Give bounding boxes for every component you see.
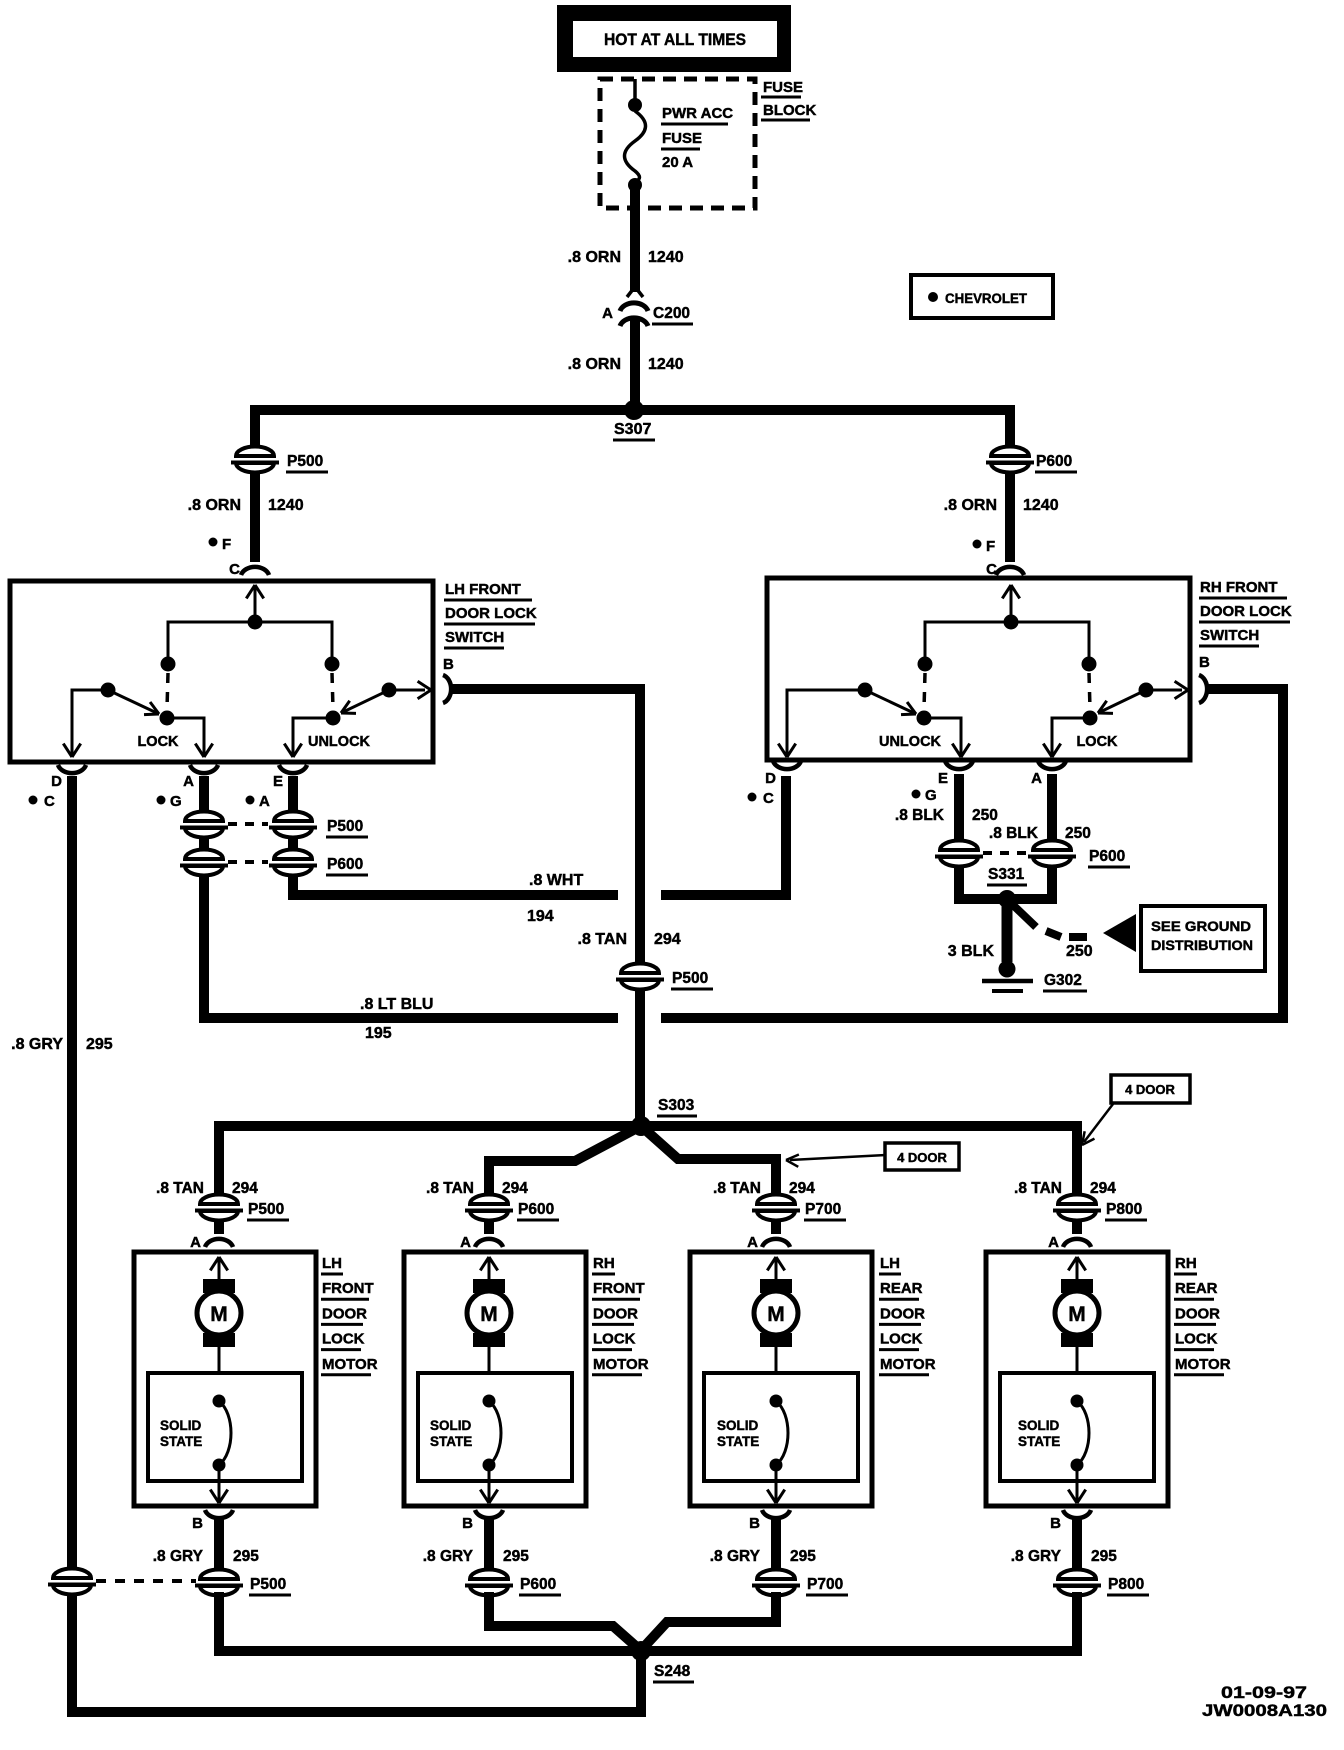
svg-text:1240: 1240 bbox=[648, 356, 684, 373]
wire S303 to column 3 bbox=[641, 1126, 776, 1198]
callout arrow 4 DOOR (column 4) bbox=[1084, 1104, 1113, 1142]
svg-text:S248: S248 bbox=[654, 1663, 691, 1680]
pin E arc RH bbox=[945, 761, 973, 769]
svg-text:M: M bbox=[1068, 1303, 1086, 1326]
RH switch contacts and wiper bbox=[1010, 585, 1013, 622]
svg-text:295: 295 bbox=[233, 1548, 259, 1565]
connector P500 (column 1 return) bbox=[195, 1569, 243, 1596]
motor M (column 3) bbox=[775, 1257, 778, 1279]
wire grommet to pin A (column 4) bbox=[1072, 1219, 1082, 1234]
wire 3 BLK 250 to ground bbox=[1002, 903, 1013, 962]
svg-text:SOLID: SOLID bbox=[160, 1418, 202, 1433]
connector P500 (LH switch outputs) bbox=[180, 811, 228, 838]
svg-text:SWITCH: SWITCH bbox=[445, 629, 504, 646]
fuse PWR ACC FUSE 20 A element bbox=[625, 111, 646, 182]
label dot A (LH pin E) bbox=[246, 796, 255, 805]
svg-text:.8 TAN: .8 TAN bbox=[156, 1180, 204, 1197]
svg-text:295: 295 bbox=[1091, 1548, 1117, 1565]
svg-text:D: D bbox=[765, 770, 776, 787]
ground G302 bbox=[999, 961, 1016, 978]
solid state box (column 2) bbox=[418, 1373, 572, 1481]
svg-text:RH FRONT: RH FRONT bbox=[1200, 579, 1278, 596]
svg-text:C200: C200 bbox=[653, 305, 690, 322]
callout box 4 DOOR (column 3) bbox=[885, 1143, 959, 1170]
svg-text:.8 TAN: .8 TAN bbox=[578, 931, 627, 948]
svg-text:1240: 1240 bbox=[648, 249, 684, 266]
wire fuse top lead bbox=[633, 79, 637, 101]
label dot F (RH) bbox=[973, 540, 982, 549]
svg-text:LOCK: LOCK bbox=[593, 1331, 636, 1348]
connector P500 (column 1 feed) bbox=[195, 1194, 243, 1221]
svg-text:STATE: STATE bbox=[160, 1434, 202, 1449]
svg-text:295: 295 bbox=[790, 1548, 816, 1565]
dashed tie left grommet to P500 bbox=[96, 1579, 196, 1583]
svg-text:E: E bbox=[938, 770, 948, 787]
wire pin B to grommet (column 2) bbox=[484, 1519, 494, 1592]
svg-text:SWITCH: SWITCH bbox=[1200, 627, 1259, 644]
motor M (column 1) bbox=[218, 1257, 221, 1279]
dashed tie P500 pair bbox=[228, 822, 268, 826]
svg-text:A: A bbox=[1031, 770, 1042, 787]
svg-text:G: G bbox=[170, 793, 182, 810]
svg-text:A: A bbox=[183, 773, 194, 790]
svg-text:B: B bbox=[192, 1515, 203, 1532]
wire fuse to C200 bbox=[630, 189, 640, 292]
svg-text:.8 TAN: .8 TAN bbox=[426, 1180, 474, 1197]
svg-text:C: C bbox=[229, 561, 240, 578]
connector P800 (column 4 feed) bbox=[1053, 1194, 1101, 1221]
connector P500 (LH feed) bbox=[231, 446, 279, 473]
wire pin B to grommet (column 3) bbox=[771, 1519, 781, 1592]
svg-text:P600: P600 bbox=[520, 1576, 556, 1593]
wire LH pin B TAN down to S303 bbox=[452, 689, 640, 1122]
node fuse top bbox=[628, 98, 642, 112]
solid state box (column 3) bbox=[704, 1373, 858, 1481]
svg-text:.8 ORN: .8 ORN bbox=[568, 356, 621, 373]
svg-text:1240: 1240 bbox=[1023, 497, 1059, 514]
motor M (column 2) bbox=[488, 1257, 491, 1279]
dashed link to ground distribution bbox=[1013, 905, 1036, 927]
svg-text:FRONT: FRONT bbox=[593, 1280, 645, 1297]
svg-text:MOTOR: MOTOR bbox=[322, 1356, 378, 1373]
svg-text:.8 GRY: .8 GRY bbox=[153, 1548, 204, 1565]
svg-text:F: F bbox=[986, 538, 995, 555]
wire grommet to pin A (column 3) bbox=[771, 1219, 781, 1234]
connector P500 (TAN trunk) bbox=[616, 963, 664, 990]
splice S307 bbox=[624, 400, 644, 420]
connector P700 (column 3 feed) bbox=[752, 1194, 800, 1221]
solid state switch contacts (column 4) bbox=[1071, 1395, 1084, 1408]
motor M (column 4) bbox=[1076, 1257, 1079, 1279]
svg-text:P700: P700 bbox=[805, 1201, 841, 1218]
label dot G (RH pin E) bbox=[912, 790, 921, 799]
svg-text:G: G bbox=[925, 787, 937, 804]
svg-text:.8 TAN: .8 TAN bbox=[1014, 1180, 1062, 1197]
svg-text:.8 LT BLU: .8 LT BLU bbox=[360, 996, 433, 1013]
connector P600 (LH switch outputs) bbox=[180, 849, 228, 876]
wire RH pin E to S331 bbox=[959, 774, 1003, 899]
svg-text:MOTOR: MOTOR bbox=[593, 1356, 649, 1373]
wire column 2 to S248 bbox=[489, 1592, 639, 1649]
svg-text:S331: S331 bbox=[988, 866, 1025, 883]
wire S303 to column 1 bbox=[219, 1126, 641, 1198]
pin B arc LH bbox=[443, 675, 451, 703]
label dot C (RH pin D) bbox=[748, 793, 757, 802]
svg-text:FUSE: FUSE bbox=[763, 79, 803, 96]
svg-text:DOOR: DOOR bbox=[322, 1305, 367, 1322]
svg-text:01-09-97: 01-09-97 bbox=[1221, 1683, 1307, 1702]
svg-text:P800: P800 bbox=[1106, 1201, 1142, 1218]
connector P600 (RH feed) bbox=[986, 446, 1034, 473]
svg-text:C: C bbox=[986, 561, 997, 578]
solid state switch contacts (column 2) bbox=[483, 1395, 496, 1408]
svg-text:.8 WHT: .8 WHT bbox=[529, 872, 583, 889]
splice S331 bbox=[998, 890, 1016, 908]
pin C arc RH switch bbox=[996, 567, 1024, 575]
connector P800 (column 4 return) bbox=[1053, 1569, 1101, 1596]
svg-text:SOLID: SOLID bbox=[1018, 1418, 1060, 1433]
pin B arc (column 3) bbox=[762, 1510, 790, 1518]
wire pin B to grommet (column 4) bbox=[1072, 1519, 1082, 1592]
svg-text:250: 250 bbox=[1065, 825, 1091, 842]
pin D arc LH bbox=[58, 765, 86, 773]
LH front door lock switch box bbox=[10, 581, 433, 762]
note box SEE GROUND DISTRIBUTION bbox=[1141, 906, 1265, 971]
svg-text:SEE GROUND: SEE GROUND bbox=[1151, 918, 1251, 934]
connector P700 (column 3 return) bbox=[752, 1569, 800, 1596]
svg-text:STATE: STATE bbox=[717, 1434, 759, 1449]
wire grommet to pin A (column 2) bbox=[484, 1219, 494, 1234]
wire grommet to pin A (column 1) bbox=[214, 1219, 224, 1234]
svg-text:REAR: REAR bbox=[880, 1280, 923, 1297]
svg-text:DOOR: DOOR bbox=[593, 1305, 638, 1322]
svg-text:4 DOOR: 4 DOOR bbox=[1125, 1082, 1175, 1097]
svg-text:BLOCK: BLOCK bbox=[763, 102, 816, 119]
svg-text:P700: P700 bbox=[807, 1576, 843, 1593]
svg-text:HOT AT ALL TIMES: HOT AT ALL TIMES bbox=[604, 30, 746, 49]
svg-text:.8 ORN: .8 ORN bbox=[188, 497, 241, 514]
grommet on left GRY wire bbox=[48, 1568, 96, 1595]
svg-text:STATE: STATE bbox=[430, 1434, 472, 1449]
svg-text:P500: P500 bbox=[672, 970, 708, 987]
svg-text:SOLID: SOLID bbox=[430, 1418, 472, 1433]
svg-text:RH: RH bbox=[593, 1255, 615, 1272]
svg-text:D: D bbox=[51, 773, 62, 790]
svg-text:B: B bbox=[1050, 1515, 1061, 1532]
connector C200 bbox=[627, 288, 634, 297]
LH switch contacts and wiper bbox=[254, 585, 257, 622]
svg-text:C: C bbox=[44, 793, 55, 810]
pin D arc RH bbox=[773, 761, 801, 769]
pin A arc RH bbox=[1038, 761, 1066, 769]
svg-text:LOCK: LOCK bbox=[880, 1331, 923, 1348]
svg-text:A: A bbox=[259, 793, 270, 810]
svg-text:P600: P600 bbox=[1036, 453, 1072, 470]
svg-text:P600: P600 bbox=[1089, 848, 1125, 865]
pin B arc (column 4) bbox=[1063, 1510, 1091, 1518]
svg-text:250: 250 bbox=[1066, 943, 1093, 960]
svg-text:P500: P500 bbox=[327, 818, 363, 835]
svg-text:1240: 1240 bbox=[268, 497, 304, 514]
svg-text:M: M bbox=[767, 1303, 785, 1326]
wire LT BLU right part to RH pin B bbox=[661, 689, 1283, 1018]
solid state box (column 4) bbox=[1000, 1373, 1154, 1481]
svg-text:REAR: REAR bbox=[1175, 1280, 1218, 1297]
svg-text:A: A bbox=[1048, 1234, 1059, 1251]
svg-text:B: B bbox=[749, 1515, 760, 1532]
svg-text:.8 BLK: .8 BLK bbox=[989, 825, 1039, 842]
wire S303 to column 2 bbox=[489, 1126, 641, 1198]
svg-text:LOCK: LOCK bbox=[1076, 734, 1118, 750]
connector P600 (column 2 return) bbox=[465, 1569, 513, 1596]
svg-text:P600: P600 bbox=[327, 856, 363, 873]
connector P600 (column 2 feed) bbox=[465, 1194, 513, 1221]
svg-text:LOCK: LOCK bbox=[322, 1331, 365, 1348]
wire column 1 and 4 to S248 bus bbox=[219, 1592, 1077, 1651]
splice S248 bbox=[631, 1641, 651, 1661]
wire C200 to S307 bbox=[630, 319, 640, 406]
svg-text:195: 195 bbox=[365, 1025, 392, 1042]
svg-text:.8 GRY: .8 GRY bbox=[1011, 1548, 1062, 1565]
label dot G (LH pin A) bbox=[157, 796, 166, 805]
svg-text:295: 295 bbox=[503, 1548, 529, 1565]
svg-text:SOLID: SOLID bbox=[717, 1418, 759, 1433]
svg-text:.8 GRY: .8 GRY bbox=[423, 1548, 474, 1565]
svg-text:LH: LH bbox=[322, 1255, 342, 1272]
svg-text:LOCK: LOCK bbox=[1175, 1331, 1218, 1348]
svg-text:DISTRIBUTION: DISTRIBUTION bbox=[1151, 937, 1253, 953]
svg-text:C: C bbox=[763, 790, 774, 807]
wire WHT right part to RH pin D bbox=[661, 776, 786, 895]
svg-text:MOTOR: MOTOR bbox=[1175, 1356, 1231, 1373]
wire .8 GRY 295 left side down to S248 bottom run bbox=[72, 776, 641, 1712]
svg-text:E: E bbox=[273, 773, 283, 790]
wire column 3 to S248 bbox=[643, 1592, 776, 1648]
svg-text:DOOR LOCK: DOOR LOCK bbox=[1200, 603, 1292, 620]
fuse block dashed outline bbox=[600, 79, 755, 208]
door lock motor box (column 2) bbox=[404, 1252, 586, 1506]
svg-text:.8 TAN: .8 TAN bbox=[713, 1180, 761, 1197]
wire LH pin A to LT BLU run bbox=[204, 776, 618, 1018]
svg-text:P500: P500 bbox=[248, 1201, 284, 1218]
wire RH pin A to S331 bbox=[1011, 774, 1052, 899]
svg-text:UNLOCK: UNLOCK bbox=[308, 734, 371, 750]
svg-text:JW0008A130: JW0008A130 bbox=[1202, 1701, 1327, 1720]
power feed box HOT AT ALL TIMES bbox=[557, 5, 791, 72]
svg-text:B: B bbox=[443, 656, 454, 673]
svg-text:194: 194 bbox=[527, 908, 554, 925]
svg-text:MOTOR: MOTOR bbox=[880, 1356, 936, 1373]
svg-text:P500: P500 bbox=[287, 453, 323, 470]
svg-text:M: M bbox=[210, 1303, 228, 1326]
svg-text:B: B bbox=[1199, 654, 1210, 671]
solid state box (column 1) bbox=[148, 1373, 302, 1481]
svg-text:P800: P800 bbox=[1108, 1576, 1144, 1593]
node fuse bottom bbox=[628, 178, 642, 192]
RH front door lock switch box bbox=[767, 578, 1190, 760]
svg-text:M: M bbox=[480, 1303, 498, 1326]
svg-text:294: 294 bbox=[654, 931, 681, 948]
svg-text:S307: S307 bbox=[614, 421, 651, 438]
svg-text:S303: S303 bbox=[658, 1097, 695, 1114]
svg-text:LH: LH bbox=[880, 1255, 900, 1272]
dashed tie RH grommets bbox=[983, 851, 1027, 855]
svg-text:A: A bbox=[190, 1234, 201, 1251]
svg-text:DOOR: DOOR bbox=[880, 1305, 925, 1322]
pin A arc LH bbox=[190, 765, 218, 773]
svg-text:250: 250 bbox=[972, 807, 998, 824]
svg-text:DOOR LOCK: DOOR LOCK bbox=[445, 605, 537, 622]
svg-text:A: A bbox=[747, 1234, 758, 1251]
off-page arrow to ground distribution bbox=[1103, 914, 1136, 952]
pin A arc (column 2) bbox=[475, 1239, 503, 1247]
wire S307 to LH switch pin C bbox=[250, 447, 260, 562]
door lock motor box (column 1) bbox=[134, 1252, 316, 1506]
svg-text:A: A bbox=[460, 1234, 471, 1251]
svg-text:P600: P600 bbox=[518, 1201, 554, 1218]
svg-text:295: 295 bbox=[86, 1036, 113, 1053]
svg-text:F: F bbox=[222, 536, 231, 553]
svg-text:RH: RH bbox=[1175, 1255, 1197, 1272]
svg-text:20 A: 20 A bbox=[662, 154, 693, 171]
wire pin B to grommet (column 1) bbox=[214, 1519, 224, 1592]
pin B arc RH bbox=[1199, 675, 1207, 703]
solid state switch contacts (column 3) bbox=[770, 1395, 783, 1408]
svg-text:LOCK: LOCK bbox=[137, 734, 179, 750]
callout arrow 4 DOOR (column 3) bbox=[790, 1155, 886, 1160]
door lock motor box (column 4) bbox=[986, 1252, 1168, 1506]
wire LH pin E to WHT run bbox=[293, 776, 618, 895]
pin A arc (column 4) bbox=[1063, 1239, 1091, 1247]
svg-text:B: B bbox=[462, 1515, 473, 1532]
wire S303 to column 4 bbox=[641, 1126, 1077, 1198]
wire S307 to RH switch pin C bbox=[1005, 447, 1015, 562]
svg-text:FUSE: FUSE bbox=[662, 130, 702, 147]
solid state switch contacts (column 1) bbox=[213, 1395, 226, 1408]
svg-text:.8 GRY: .8 GRY bbox=[11, 1036, 63, 1053]
wire S307 bus bbox=[255, 410, 1010, 449]
connector P500/P600 (RH E column) bbox=[935, 840, 983, 867]
dashed tie P600 pair bbox=[228, 860, 268, 864]
svg-text:UNLOCK: UNLOCK bbox=[879, 734, 942, 750]
svg-text:.8 ORN: .8 ORN bbox=[568, 249, 621, 266]
door lock motor box (column 3) bbox=[690, 1252, 872, 1506]
callout box 4 DOOR (column 4) bbox=[1111, 1075, 1190, 1103]
svg-text:A: A bbox=[602, 305, 613, 322]
connector P600 (RH A column) bbox=[1028, 840, 1076, 867]
legend box CHEVROLET bbox=[911, 275, 1053, 318]
svg-text:G302: G302 bbox=[1044, 972, 1082, 989]
svg-text:STATE: STATE bbox=[1018, 1434, 1060, 1449]
svg-text:DOOR: DOOR bbox=[1175, 1305, 1220, 1322]
svg-text:CHEVROLET: CHEVROLET bbox=[945, 291, 1028, 306]
svg-text:.8 ORN: .8 ORN bbox=[944, 497, 997, 514]
splice S303 bbox=[631, 1116, 651, 1136]
svg-text:4 DOOR: 4 DOOR bbox=[897, 1150, 947, 1165]
pin E arc LH bbox=[279, 765, 307, 773]
pin C arc LH switch bbox=[241, 567, 269, 575]
pin B arc (column 1) bbox=[205, 1510, 233, 1518]
pin B arc (column 2) bbox=[475, 1510, 503, 1518]
label dot F (LH) bbox=[209, 538, 218, 547]
svg-text:PWR ACC: PWR ACC bbox=[662, 105, 733, 122]
label dot C (LH pin D) bbox=[29, 796, 38, 805]
svg-text:FRONT: FRONT bbox=[322, 1280, 374, 1297]
svg-text:3 BLK: 3 BLK bbox=[948, 943, 995, 960]
svg-text:P500: P500 bbox=[250, 1576, 286, 1593]
svg-text:.8 BLK: .8 BLK bbox=[895, 807, 945, 824]
svg-text:LH FRONT: LH FRONT bbox=[445, 581, 521, 598]
svg-text:.8 GRY: .8 GRY bbox=[710, 1548, 761, 1565]
pin A arc (column 3) bbox=[762, 1239, 790, 1247]
pin A arc (column 1) bbox=[205, 1239, 233, 1247]
